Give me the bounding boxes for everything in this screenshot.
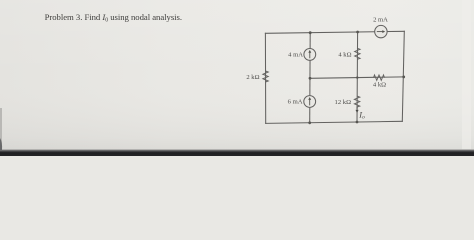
wire bottom xyxy=(266,121,403,123)
junction node bottom-B xyxy=(308,121,311,124)
svg-text:4 mA: 4 mA xyxy=(288,52,303,59)
wire column B (current sources) xyxy=(309,33,312,123)
junction node mid-C xyxy=(356,76,358,78)
current source I2 6 mA xyxy=(304,96,316,108)
wire right branch xyxy=(402,31,404,121)
current source I1 4 mA xyxy=(304,49,316,61)
current source I3 2 mA (top) xyxy=(375,25,387,37)
junction node mid-D xyxy=(402,76,405,79)
resistor R2 4 kOhm (vertical) xyxy=(355,48,360,59)
bottom dark strip xyxy=(0,149,474,156)
svg-text:12 kΩ: 12 kΩ xyxy=(335,99,352,106)
wire left branch xyxy=(264,33,266,123)
current arrow Io xyxy=(355,107,358,114)
svg-text:Problem 3. Find I0 using nodal: Problem 3. Find I0 using nodal analysis. xyxy=(45,12,182,24)
junction node top-C xyxy=(356,31,359,34)
svg-text:4 kΩ: 4 kΩ xyxy=(373,82,386,89)
wire column C (4k / 12k resistors) xyxy=(356,32,359,122)
junction node bottom-C xyxy=(356,121,359,124)
resistor R4 4 kOhm (horizontal, middle wire) xyxy=(374,75,385,80)
resistor R3 12 kOhm xyxy=(354,96,359,107)
resistor R1 2 kOhm (left branch) xyxy=(263,71,268,82)
svg-text:2 mA: 2 mA xyxy=(373,16,388,23)
svg-text:4 kΩ: 4 kΩ xyxy=(338,51,351,58)
junction node top-B xyxy=(309,31,312,34)
svg-text:2 kΩ: 2 kΩ xyxy=(246,74,259,81)
svg-text:6 mA: 6 mA xyxy=(288,99,303,106)
paper background xyxy=(0,0,474,156)
junction node mid-B xyxy=(309,77,312,80)
wire middle (node 2 to right branch) xyxy=(310,77,404,78)
wire top (node 1 - node 2 - top of right branch) xyxy=(265,31,404,33)
